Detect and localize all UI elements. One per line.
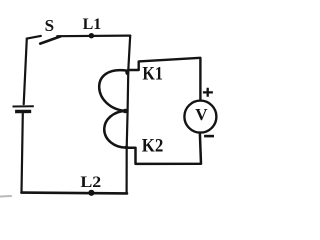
node L1 (junction dot) (89, 33, 94, 38)
junction blob at K1 coil attach (125, 70, 129, 75)
svg-text:K2: K2 (142, 135, 164, 156)
wire: right vertical (through coil taps) (127, 36, 131, 194)
junction blob at K2 coil attach (125, 146, 129, 150)
svg-text:L2: L2 (80, 174, 101, 191)
node L2 (junction dot) (88, 190, 94, 196)
wire: left vertical upper segment (24, 39, 27, 105)
switch S blade (40, 36, 60, 43)
wire: top horizontal from switch to top-right corner (57, 34, 130, 37)
wire: top-left horizontal to switch (27, 36, 41, 39)
svg-text:L1: L1 (83, 16, 102, 33)
battery cell (long positive plate) (13, 105, 34, 107)
wire: left vertical lower segment (22, 114, 23, 193)
junction blob at coil cusp (122, 109, 128, 113)
coil upper loop (hump between L1/K1 and cusp) (99, 70, 128, 111)
scan smudge at lower-left edge (0, 195, 11, 198)
plus polarity mark (203, 88, 213, 97)
battery cell (short thick negative plate) (15, 110, 31, 113)
wire: bottom horizontal (22, 191, 128, 194)
wire: voltmeter bottom to K2 tap (staircase) (127, 134, 201, 164)
coil lower loop (hump between cusp and K2) (104, 111, 126, 148)
svg-text:K1: K1 (142, 63, 163, 84)
wire: K1 tap (staircase to voltmeter top) (128, 58, 200, 100)
svg-text:V: V (195, 105, 208, 124)
minus polarity mark (204, 135, 214, 138)
voltmeter V (circle) (184, 101, 216, 133)
svg-text:S: S (45, 16, 54, 35)
